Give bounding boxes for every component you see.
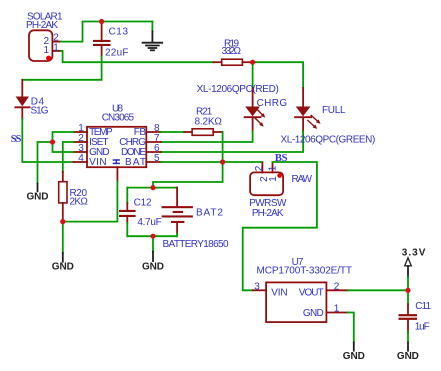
pin names U7 [271, 287, 323, 319]
node junction R20 bottom [60, 219, 65, 224]
svg-text:XL-1206QPC(GREEN): XL-1206QPC(GREEN) [281, 134, 375, 145]
svg-text:CHRG: CHRG [257, 98, 288, 109]
svg-text:1: 1 [334, 304, 340, 315]
diode D4 [15, 80, 29, 119]
IC U8 CN3065 [74, 127, 161, 182]
wire R21 to BAT row [222, 132, 224, 162]
capacitor C12 [119, 203, 136, 223]
svg-text:GND: GND [27, 191, 49, 202]
capacitor C11 [399, 290, 418, 342]
wire battery loop top rail [127, 187, 177, 189]
svg-text:1: 1 [267, 165, 278, 171]
svg-text:3: 3 [254, 281, 260, 292]
ground GND left [27, 184, 49, 203]
wire CHRG led to pin7 [161, 131, 253, 142]
connector PWRSW [250, 163, 283, 196]
svg-text:GND: GND [343, 351, 365, 362]
svg-text:BAT2: BAT2 [196, 208, 223, 219]
svg-text:332Ω: 332Ω [222, 46, 242, 57]
svg-text:8.2KΩ: 8.2KΩ [195, 116, 223, 127]
svg-text:RAW: RAW [292, 174, 313, 185]
node junction C13 top [99, 19, 104, 24]
wire BAT2 bottom [176, 234, 178, 237]
wire VOUT to node [348, 289, 408, 291]
wire battery loop bottom rail [127, 235, 177, 237]
svg-text:2KΩ: 2KΩ [70, 197, 89, 208]
resistor R21 [184, 129, 222, 136]
wire solar pin2 to top rail [61, 22, 152, 42]
svg-text:3.3V: 3.3V [402, 248, 426, 259]
wire ISET to R20 [63, 142, 74, 172]
svg-text:C12: C12 [134, 197, 152, 208]
pin names U8 [89, 127, 146, 168]
svg-text:GND: GND [142, 261, 164, 272]
battery BAT2 [162, 188, 193, 234]
svg-text:1: 1 [268, 176, 279, 182]
wire node to GND pin3 [53, 142, 74, 152]
svg-text:FULL: FULL [322, 105, 346, 116]
supply 3.3V [402, 248, 426, 291]
wire FB to R21 [161, 131, 184, 133]
node junction BAT row [220, 159, 225, 164]
svg-text:MCP1700T-3302E/TT: MCP1700T-3302E/TT [257, 266, 352, 277]
svg-text:BAT: BAT [125, 157, 146, 168]
svg-text:5: 5 [154, 153, 160, 164]
capacitor C13 [93, 22, 111, 57]
node junction battery top [150, 185, 155, 190]
wire TEMP to node [53, 132, 74, 142]
svg-text:2: 2 [334, 281, 340, 292]
svg-text:4: 4 [78, 153, 84, 164]
svg-text:GND: GND [52, 262, 74, 273]
wire FULL led to pin6 [161, 131, 303, 152]
svg-text:SS: SS [11, 134, 22, 145]
svg-text:1: 1 [53, 42, 59, 53]
svg-text:BATTERY18650: BATTERY18650 [163, 239, 229, 250]
wire BAT row [161, 161, 262, 163]
ground GND under C11 [397, 343, 419, 362]
svg-text:C13: C13 [109, 26, 129, 37]
wire D4 to VIN row [22, 119, 73, 162]
svg-text:VIN: VIN [89, 157, 106, 168]
wire PWRSW pin1 to U7 VIN [243, 162, 317, 290]
node junction R19 out [250, 60, 255, 65]
led FULL XL-1206QPC(GREEN) [295, 88, 322, 131]
ground GND under U7 [343, 343, 365, 362]
node junction VOUT [405, 288, 410, 293]
connector SOLAR1 [29, 30, 61, 61]
ground GND under R20 [52, 253, 74, 273]
svg-text:VOUT: VOUT [299, 287, 324, 298]
svg-text:1: 1 [44, 45, 50, 56]
svg-text:PH-2AK: PH-2AK [26, 20, 58, 31]
svg-text:GND: GND [397, 351, 419, 362]
wire BAT node to battery loop [153, 162, 223, 188]
wire R20 node to ground [62, 222, 64, 253]
svg-text:1uF: 1uF [415, 322, 430, 333]
wire to CHRG led branch [252, 62, 254, 88]
wire to FULL led branch [253, 62, 304, 88]
resistor R19 [214, 59, 253, 65]
regulator U7 MCP1700T-3302E/TT [253, 282, 348, 322]
wire node to ground [38, 142, 53, 184]
led CHRG XL-1206QPC(RED) [245, 88, 267, 131]
svg-text:C11: C11 [415, 301, 431, 312]
pin numbers U7 [254, 281, 339, 314]
svg-text:XL-1206QPC(RED): XL-1206QPC(RED) [197, 84, 279, 95]
node junction battery bottom [150, 234, 155, 239]
pin numbers U8 [78, 123, 160, 164]
wire C13 bottom to D4 anode [22, 57, 101, 80]
node junction TEMP-GND [50, 139, 55, 144]
svg-text:VIN: VIN [271, 287, 287, 298]
wire loop left down [126, 188, 128, 204]
resistor R20 [59, 172, 67, 222]
wire C12 bottom [126, 223, 128, 236]
earth ground [143, 22, 163, 51]
ground GND under battery [142, 252, 164, 273]
svg-text:22uF: 22uF [105, 48, 128, 59]
svg-text:GND: GND [303, 308, 324, 319]
svg-text:PH-2AK: PH-2AK [252, 208, 284, 219]
wire solar pin1 to R19 rail [61, 51, 214, 62]
wire U7 GND pin to ground [348, 313, 354, 343]
svg-text:S1G: S1G [31, 106, 49, 117]
wire R20 node to U8 pad [63, 181, 118, 221]
svg-text:4.7uF: 4.7uF [137, 217, 161, 228]
svg-text:CN3065: CN3065 [102, 112, 135, 123]
wire loop to ground [152, 236, 154, 251]
svg-text:2: 2 [254, 165, 265, 171]
